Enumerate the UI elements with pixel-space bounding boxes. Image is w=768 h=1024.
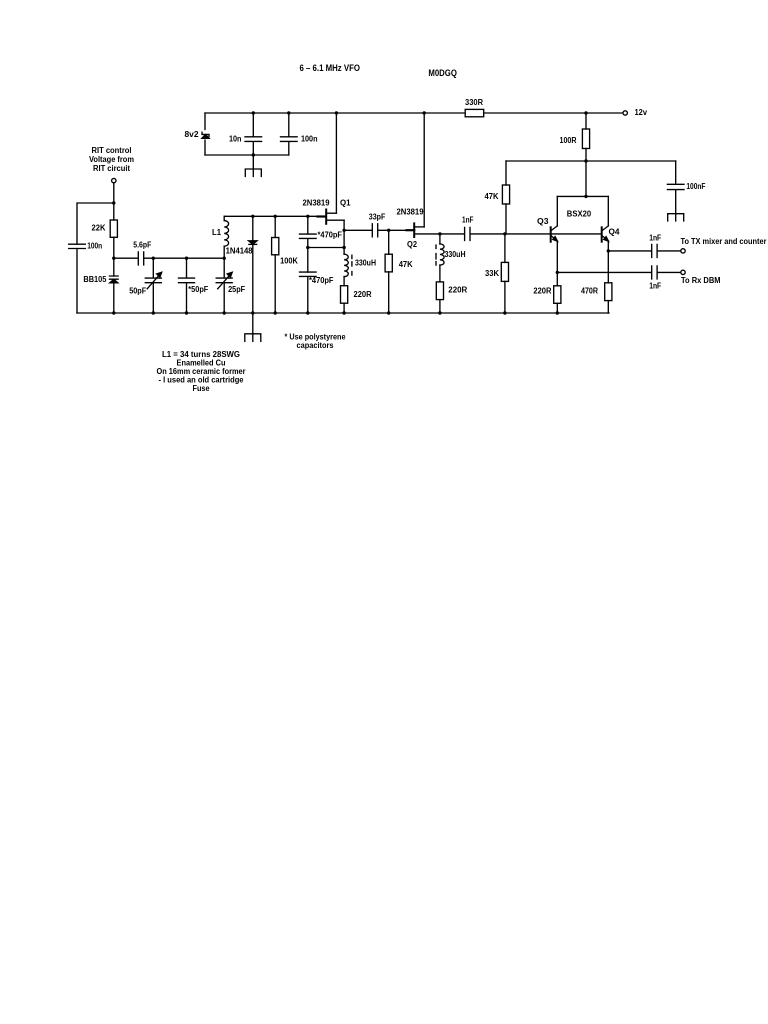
svg-text:To Rx DBM: To Rx DBM	[681, 276, 721, 285]
wire RIT left loop	[77, 203, 114, 313]
svg-text:330uH: 330uH	[355, 259, 376, 268]
node junction Q3 emitter RX	[556, 271, 559, 274]
wire tuning line right	[144, 257, 224, 259]
svg-text:100n: 100n	[87, 242, 102, 251]
resistor 220R Q3	[554, 286, 561, 304]
diode 1N4148	[252, 216, 254, 241]
svg-text:1nF: 1nF	[462, 216, 474, 225]
node junction rail Q2 drain	[423, 111, 426, 114]
node junction Q4 emitter TX	[607, 249, 610, 252]
svg-text:Fuse: Fuse	[193, 384, 211, 393]
wire TX output line	[608, 250, 651, 252]
node junction gate 100K	[274, 215, 277, 218]
svg-text:33pF: 33pF	[369, 213, 386, 222]
node junction 50pF	[152, 257, 155, 260]
ground 100nF	[668, 214, 684, 221]
capacitor 10n	[245, 113, 262, 155]
svg-text:10n: 10n	[229, 135, 242, 144]
node junction 47K lower	[387, 229, 390, 232]
svg-text:8v2: 8v2	[185, 130, 200, 139]
node junction rail 100R	[584, 111, 587, 114]
inductor 330uH Q1	[344, 254, 348, 276]
node junction base line	[503, 232, 506, 235]
wire BB105 bottom	[113, 283, 115, 313]
svg-text:*470pF: *470pF	[309, 276, 334, 285]
node junction rail bottom 220R Q2	[438, 311, 441, 314]
svg-text:220R: 220R	[354, 290, 372, 299]
wire 22K bottom	[113, 237, 115, 276]
wire Q4 collector	[602, 196, 608, 230]
node junction rail 100n	[287, 111, 290, 114]
node junction rail bottom 100K	[274, 311, 277, 314]
svg-text:Voltage from: Voltage from	[89, 155, 134, 164]
node junction rail bottom 50pF fixed	[185, 311, 188, 314]
capacitor 1nF RX	[652, 266, 657, 279]
resistor 33K	[504, 234, 506, 263]
node junction rail bottom 47K	[387, 311, 390, 314]
wire Q1 source vertical	[343, 220, 345, 254]
wire ground tap decoupling	[252, 155, 254, 169]
resistor 47K upper	[502, 185, 509, 204]
node junction gate 470pF	[306, 215, 309, 218]
node junction feedback left	[306, 246, 309, 249]
wire gate lead bold	[318, 215, 326, 217]
diode BB105 varicap	[110, 276, 119, 279]
svg-text:capacitors: capacitors	[297, 341, 334, 350]
svg-text:Q2: Q2	[407, 240, 418, 249]
wire Q3 emitter	[556, 241, 558, 286]
svg-text:6 – 6.1 MHz VFO: 6 – 6.1 MHz VFO	[300, 63, 361, 73]
svg-text:To TX mixer and counter: To TX mixer and counter	[681, 237, 767, 246]
wire Q3 collector	[551, 196, 557, 230]
svg-text:Q4: Q4	[609, 228, 621, 237]
svg-text:47K: 47K	[485, 192, 499, 201]
node junction RIT tee	[112, 201, 115, 204]
transistor Q2 2N3819	[413, 223, 415, 237]
ground main	[245, 334, 261, 342]
node junction rail bottom 470pF	[306, 311, 309, 314]
svg-text:100n: 100n	[301, 135, 318, 144]
capacitor 25pF variable	[216, 258, 232, 313]
node junction rail bottom 33K	[503, 311, 506, 314]
wire ground rail bottom	[77, 312, 609, 314]
inductor L1	[223, 216, 225, 220]
wire RX output line	[557, 271, 651, 273]
svg-text:BSX20: BSX20	[567, 209, 592, 219]
resistor 330R	[465, 109, 484, 116]
wire 100R bottom to collector bar	[585, 149, 587, 197]
wire zener branch left side	[204, 113, 206, 155]
svg-text:22K: 22K	[92, 224, 106, 233]
svg-text:33K: 33K	[485, 269, 499, 278]
svg-text:50pF: 50pF	[129, 287, 146, 296]
capacitor 470pF lower	[300, 272, 317, 313]
svg-text:100nF: 100nF	[686, 182, 705, 191]
capacitor 33pF	[372, 224, 377, 237]
diode zener 8v2	[202, 132, 209, 136]
capacitor 100nF	[667, 161, 684, 214]
wire RIT vertical to 22K	[113, 183, 115, 220]
wire top 12v rail left section	[205, 112, 465, 114]
node junction rail bottom 220R Q3	[556, 311, 559, 314]
svg-text:*470pF: *470pF	[318, 231, 343, 240]
node junction rail bottom 220R Q1	[342, 311, 345, 314]
resistor 220R Q1	[341, 286, 348, 304]
wire bias node horizontal	[506, 160, 676, 162]
wire Q1 source to 33pF	[344, 229, 372, 231]
node junction rail 10n	[252, 111, 255, 114]
svg-text:Q1: Q1	[340, 199, 351, 208]
node junction 22K BB105	[112, 257, 115, 260]
svg-text:330R: 330R	[465, 98, 483, 107]
node junction gate 1N4148	[251, 215, 254, 218]
transistor Q4	[601, 227, 603, 241]
capacitor 100n	[281, 113, 298, 155]
node RX terminal	[681, 270, 685, 274]
node junction bias 100R	[584, 159, 587, 162]
wire tuning line left	[114, 257, 138, 259]
node junction 50pF fixed	[185, 257, 188, 260]
capacitor 5.6pF	[138, 252, 143, 265]
node junction Q2 source	[438, 232, 441, 235]
capacitor 50pF fixed	[179, 258, 195, 313]
wire 1N4148 ground tap	[252, 313, 254, 334]
wire 47K upper top	[505, 161, 507, 185]
transistor Q3	[550, 227, 552, 241]
wire decoupling bottom	[205, 154, 289, 156]
svg-text:470R: 470R	[581, 287, 598, 296]
capacitor 1nF TX	[652, 244, 657, 257]
svg-text:2N3819: 2N3819	[397, 208, 425, 217]
capacitor 470pF upper	[300, 216, 317, 272]
node junction collector bar	[584, 195, 587, 198]
capacitor 50pF variable	[145, 258, 161, 313]
svg-text:2N3819: 2N3819	[303, 199, 331, 208]
wire Q2 drain to rail	[423, 113, 425, 227]
svg-text:BB105: BB105	[83, 275, 107, 284]
capacitor 1nF coupling	[465, 227, 470, 240]
wire top 12v rail right section	[484, 112, 623, 114]
node junction rail bottom ground	[251, 311, 254, 314]
resistor 22K	[110, 220, 117, 237]
wire 47K upper bottom	[505, 204, 507, 234]
wire Q1 drain to rail	[335, 113, 337, 213]
node junction L1 25pF	[223, 257, 226, 260]
svg-text:47K: 47K	[399, 260, 413, 269]
capacitor 100n left	[69, 244, 86, 248]
svg-text:25pF: 25pF	[228, 285, 245, 294]
svg-text:L1: L1	[212, 228, 222, 237]
node junction feedback right	[342, 246, 345, 249]
wire feedback tap	[308, 247, 344, 249]
wire Q4 emitter	[607, 241, 609, 283]
resistor 220R Q2	[436, 282, 443, 300]
node junction rail Q1 drain	[335, 111, 338, 114]
node junction decoupling ground	[252, 153, 255, 156]
resistor 100K	[274, 216, 276, 237]
resistor 100R	[582, 129, 589, 149]
inductor 330uH Q2	[439, 234, 441, 244]
svg-text:5.6pF: 5.6pF	[133, 241, 151, 250]
node junction rail bottom 50pF	[152, 311, 155, 314]
node junction Q1 source out	[342, 229, 345, 232]
svg-text:RIT circuit: RIT circuit	[93, 164, 130, 173]
node RIT input terminal	[112, 178, 116, 182]
svg-text:100K: 100K	[280, 257, 298, 266]
node junction rail bottom BB105	[112, 311, 115, 314]
wire base line to Q4	[471, 233, 601, 235]
svg-text:220R: 220R	[533, 287, 551, 296]
svg-text:220R: 220R	[448, 286, 467, 295]
svg-text:*50pF: *50pF	[188, 285, 208, 294]
ground decoupling	[245, 169, 261, 177]
svg-text:330uH: 330uH	[445, 250, 466, 259]
wire gate net top	[224, 215, 325, 217]
svg-text:1nF: 1nF	[649, 234, 661, 243]
node 12v terminal	[623, 111, 627, 115]
svg-text:1nF: 1nF	[649, 282, 661, 291]
svg-text:100R: 100R	[560, 136, 577, 145]
node junction rail bottom 25pF	[223, 311, 226, 314]
wire 33pF to Q2 gate	[378, 229, 413, 231]
resistor 47K lower	[388, 230, 390, 254]
resistor 470R	[605, 283, 612, 301]
node TX terminal	[681, 249, 685, 253]
svg-text:Q3: Q3	[537, 217, 549, 226]
wire 100R top	[585, 113, 587, 129]
wire collector bar	[557, 195, 608, 197]
transistor Q1 2N3819	[325, 210, 327, 224]
wire Q2 source and base line	[414, 233, 464, 235]
svg-text:1N4148: 1N4148	[226, 247, 254, 256]
svg-text:M0DGQ: M0DGQ	[428, 68, 457, 78]
svg-text:RIT control: RIT control	[92, 146, 132, 155]
svg-text:12v: 12v	[635, 108, 648, 117]
